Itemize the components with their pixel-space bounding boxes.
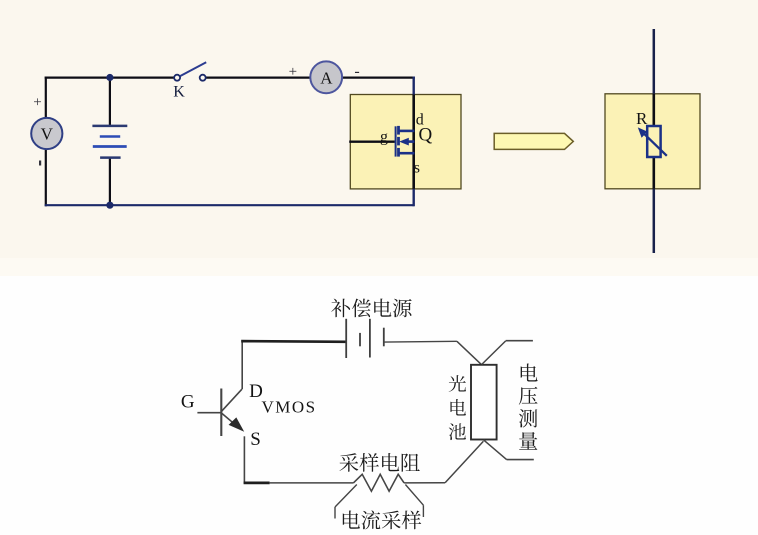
label VMOS [262,398,317,417]
wire: drain up to compensation supply [241,340,243,389]
ammeter A [289,61,360,93]
wire: bottom return rail [45,204,414,206]
wire: battery to photocell top [384,341,482,364]
label Q [419,125,433,146]
wire: source down to bottom rail [243,436,245,483]
label 电流采样 [343,510,421,529]
wire: top rail from voltmeter to switch [45,76,175,78]
svg-text:Q: Q [419,125,433,146]
label D [249,381,263,402]
variable resistor R symbol [638,126,667,157]
node: junction top of battery [106,74,113,81]
svg-text:R: R [636,109,648,128]
svg-text:K: K [173,83,185,100]
label d (drain pin) [416,112,424,129]
svg-text:s: s [414,159,420,176]
label S [250,429,261,450]
wire: bottom rail to sampling resistor [244,482,354,485]
label 补偿电源 [331,299,411,318]
callout bracket right (current sampling) [405,485,423,518]
compensation battery 补偿电源 [346,319,384,358]
wire: vertical through R box [653,29,656,253]
svg-text:g: g [380,129,388,146]
node: junction bottom of battery [106,202,113,209]
svg-text:VMOS: VMOS [262,398,317,417]
arrow banner between boxes [494,133,573,149]
label R [636,109,648,128]
MOSFET Q symbol [396,126,415,157]
switch K [173,62,206,100]
callout bracket left (current sampling) [335,485,357,519]
wire: drain/source vertical through Q box [413,77,415,207]
voltmeter V [31,95,62,166]
svg-text:+: + [33,95,41,111]
VMOS transistor symbol [197,389,244,437]
svg-text:A: A [320,69,333,88]
svg-text:G: G [181,392,195,413]
wire: voltage tap bottom [484,440,534,460]
svg-text:+: + [289,64,297,80]
wire: ammeter to corner above Q box [342,76,415,78]
label G [181,392,195,413]
label 电压测量 [519,364,538,450]
wire: resistor to photocell bottom [404,441,483,483]
svg-text:S: S [250,429,261,450]
wire: switch to ammeter [206,76,311,78]
label 光电池 [449,375,466,440]
wire: battery vertical stem [109,78,111,206]
svg-text:V: V [41,125,54,144]
label 采样电阻 [339,453,419,472]
svg-text:-: - [354,63,359,80]
sampling resistor zigzag [353,474,404,491]
label g (gate pin) [380,129,388,146]
battery (top circuit) [92,126,127,158]
yellow highlight box around R [605,94,700,189]
wire: top rail to battery (thick) [241,340,346,343]
yellow highlight box around Q [350,95,461,189]
wire: left vertical branch of voltmeter [45,77,47,207]
label s (source pin) [414,159,420,176]
wire: gate lead into Q box [349,140,395,142]
photocell rectangle [471,365,497,440]
wire: voltage tap top [482,341,533,365]
